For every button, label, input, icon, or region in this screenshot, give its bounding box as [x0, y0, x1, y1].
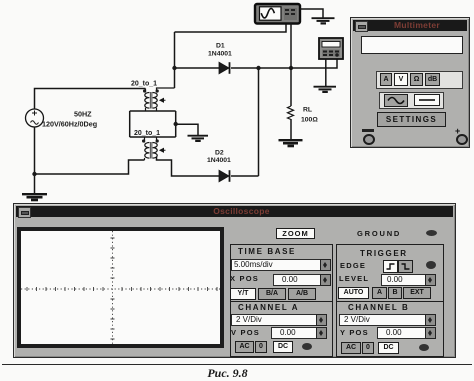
wire D1 cathode to output node and multimeter: [231, 59, 337, 68]
wire RL to ground: [290, 119, 292, 139]
Y POS label: [340, 328, 369, 337]
multimeter display field: [361, 36, 463, 54]
transformer T2: [142, 137, 166, 160]
channel B vdiv field: [339, 314, 430, 326]
button Ohm: [410, 73, 423, 86]
AUTO button: [338, 287, 369, 299]
multimeter title bar: [353, 20, 467, 31]
svg-text:100Ω: 100Ω: [301, 117, 318, 124]
x pos spinner: [320, 274, 331, 286]
resistor RL: [288, 106, 294, 120]
wire scope ground: [300, 9, 323, 18]
ZOOM button: [276, 228, 315, 239]
svg-text:D1: D1: [216, 43, 225, 50]
A/B button: [288, 288, 316, 300]
v pos field: [271, 327, 325, 339]
LEVEL label: [339, 274, 369, 283]
mode strip A V Ohm dB: [376, 71, 463, 89]
label RL 100Ohm: [301, 107, 318, 124]
svg-text:1N4001: 1N4001: [208, 51, 232, 58]
control-menu box: [355, 21, 368, 32]
svg-text:20_to_1: 20_to_1: [134, 130, 160, 137]
channel B DC button: [378, 342, 399, 354]
wire riser T1 secondary to top rail: [174, 32, 176, 88]
trigger terminal dot: [426, 261, 436, 269]
level spinner: [425, 274, 436, 286]
oscilloscope title bar: [16, 206, 453, 217]
ground terminal dot: [426, 230, 437, 236]
V POS label: [231, 328, 260, 337]
EXT button: [403, 287, 431, 299]
node D1 anode junction: [172, 66, 176, 70]
wire T2 secondary bottom to D2 anode: [157, 157, 220, 176]
Y/T button: [230, 288, 256, 300]
diode D2: [219, 170, 230, 182]
diode D1: [219, 62, 230, 74]
wire D2 cathode: [231, 175, 259, 177]
oscilloscope panel window: [13, 203, 456, 358]
channel B vdiv spinner: [425, 314, 436, 326]
ground (source): [22, 194, 47, 200]
button A: [380, 73, 392, 86]
label D2 1N4001: [207, 150, 231, 165]
plus terminal: [455, 126, 460, 136]
button DC (flat): [414, 94, 440, 106]
TIME BASE group: [230, 244, 333, 302]
svg-text:RL: RL: [303, 107, 312, 114]
level field: [381, 274, 431, 286]
channel B terminal dot: [419, 344, 429, 351]
node center tap junction: [174, 122, 178, 126]
ground (RL): [279, 140, 303, 146]
channel A vdiv field: [231, 314, 321, 326]
y pos spinner: [425, 327, 436, 339]
node junction source-bottom: [32, 172, 36, 176]
button V (pressed): [394, 73, 408, 86]
multimeter icon: [319, 38, 343, 59]
horizontal rule under figure: [2, 364, 472, 366]
edge rising button: [383, 260, 398, 273]
channel A AC button: [235, 341, 254, 353]
CHANNEL A group: [230, 301, 333, 357]
svg-text:120V/60Hz/0Deg: 120V/60Hz/0Deg: [42, 120, 97, 129]
minus terminal: [362, 129, 374, 132]
wire scope channel B to output node and RL: [290, 23, 292, 106]
wire source top to T1 primary: [35, 89, 146, 110]
SETTINGS button: [377, 112, 446, 127]
svg-text:D2: D2: [215, 150, 224, 157]
CHANNEL B group: [336, 301, 444, 357]
svg-text:20_to_1: 20_to_1: [131, 81, 157, 88]
A button: [372, 287, 387, 299]
B/A button: [258, 288, 286, 300]
wire D1 anode: [175, 67, 220, 69]
oscilloscope icon: [255, 4, 300, 24]
channel B 0 button: [362, 342, 374, 354]
x pos field: [273, 274, 329, 286]
button dB: [425, 73, 440, 86]
wire multimeter minus lead to ground: [325, 59, 327, 86]
caption: [0, 366, 455, 381]
scope screen frame: [17, 227, 224, 348]
channel A DC button: [273, 341, 293, 353]
multimeter panel window: [350, 17, 470, 148]
wire D2 output riser: [258, 68, 260, 176]
scope graticule axes: [21, 231, 220, 344]
channel A vdiv spinner: [316, 314, 327, 326]
button AC (sine, pressed): [384, 94, 408, 107]
transformer T1: [143, 88, 175, 111]
label 50HZ 120V/60Hz/0Deg: [42, 110, 97, 129]
time base spinner: [320, 259, 331, 271]
svg-text:1N4001: 1N4001: [207, 157, 231, 164]
ground (multimeter icon): [314, 87, 337, 92]
channel A terminal dot: [302, 343, 312, 350]
B button: [388, 287, 402, 299]
wire source bottom to ground rail: [34, 127, 36, 193]
time base field: [231, 259, 323, 271]
svg-text:50HZ: 50HZ: [74, 110, 92, 119]
ground (scope icon): [312, 18, 335, 23]
v pos spinner: [316, 327, 327, 339]
edge falling button: [398, 260, 413, 273]
wire inter-transformer box: [130, 111, 176, 137]
wire T2 primary bottom to source bottom rail: [35, 160, 145, 174]
TRIGGER group: [336, 244, 444, 302]
label D1 1N4001: [208, 43, 232, 58]
ground (center tap): [188, 136, 209, 141]
control-menu box: [18, 207, 31, 218]
EDGE label: [340, 261, 366, 270]
y pos field: [377, 327, 432, 339]
AC DC strip: [379, 92, 444, 109]
GROUND label: [357, 229, 401, 238]
wire center tap to ground: [176, 124, 198, 135]
channel A 0 button: [255, 341, 267, 353]
X POS label: [230, 274, 259, 283]
node output junction: [289, 66, 293, 70]
channel B AC button: [341, 342, 361, 354]
node D2 riser junction: [256, 66, 260, 70]
AC source V1: [26, 109, 44, 127]
wire top rail to scope: [175, 23, 287, 32]
